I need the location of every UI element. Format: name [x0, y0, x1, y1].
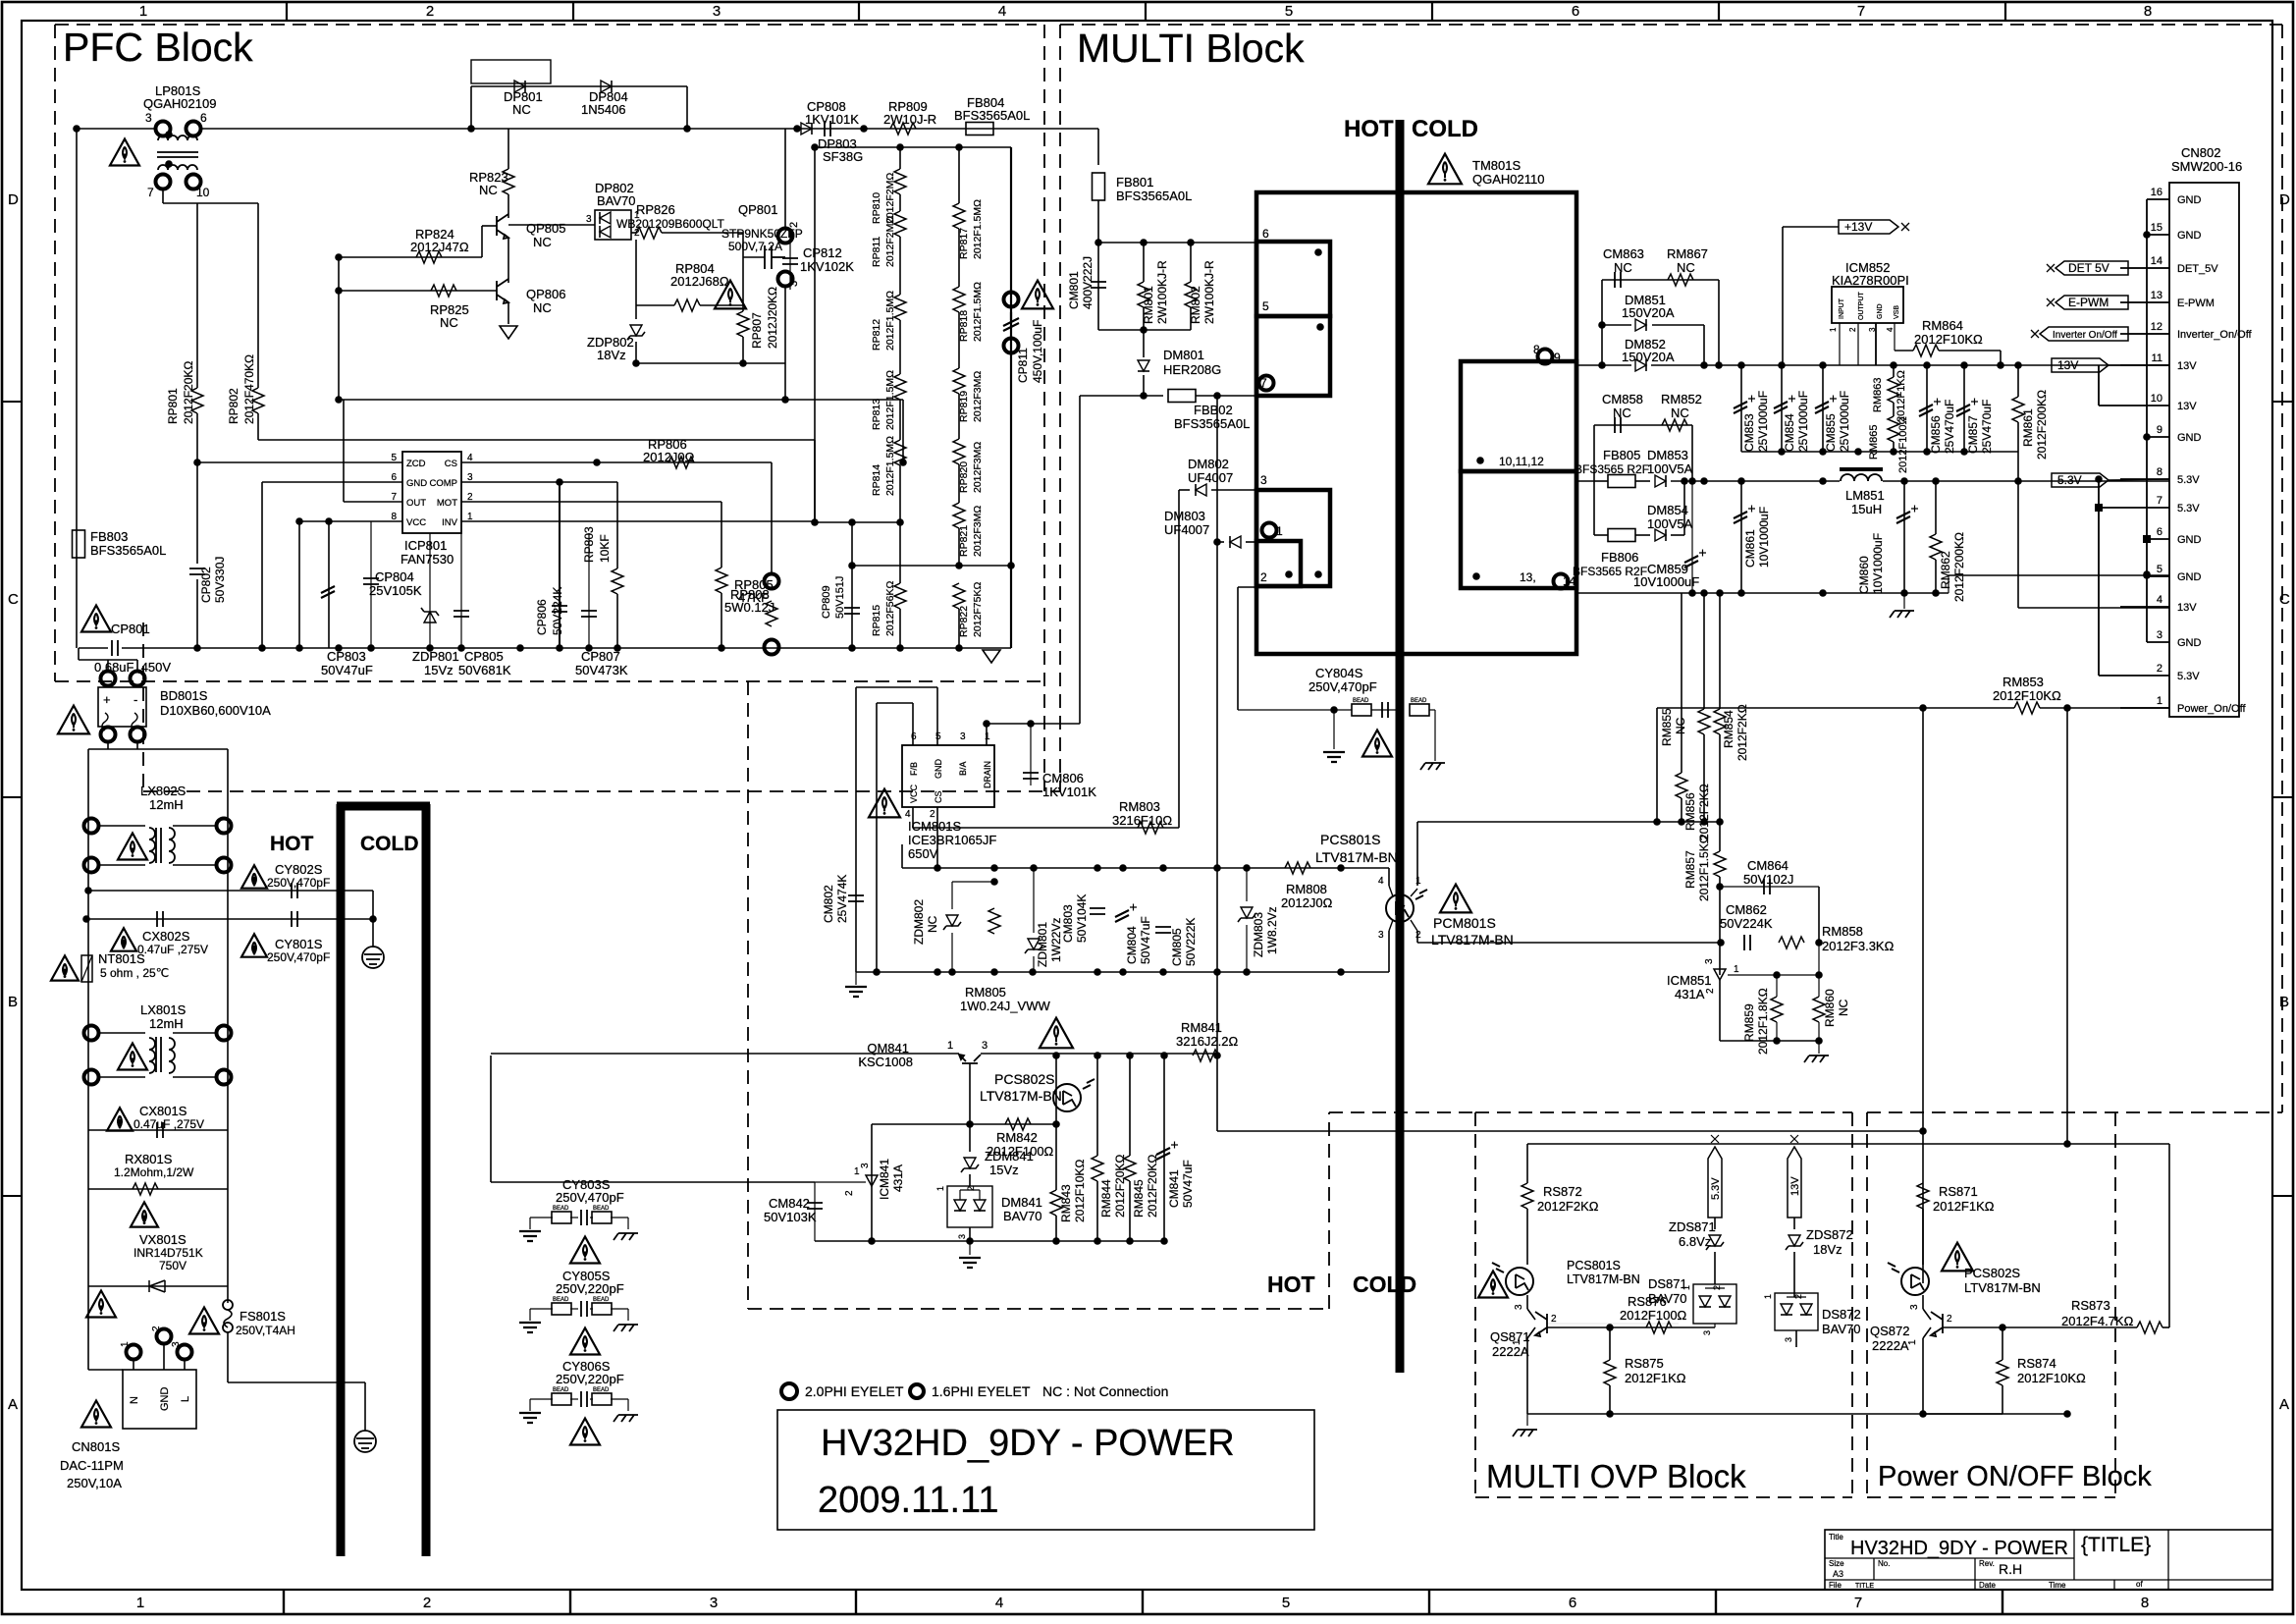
svg-text:1: 1: [1415, 876, 1421, 887]
capacitor CM842: [814, 1182, 816, 1241]
svg-text:2: 2: [1712, 1285, 1722, 1290]
svg-text:ZDM802: ZDM802: [912, 899, 926, 945]
svg-text:UF4007: UF4007: [1188, 470, 1233, 485]
rail y460: [1741, 451, 2018, 453]
svg-text:GND: GND: [2177, 534, 2202, 546]
svg-text:RM865: RM865: [1868, 425, 1880, 460]
svg-text:3: 3: [1909, 1304, 1920, 1310]
svg-text:LX802S: LX802S: [140, 784, 187, 798]
wire x1688 down: [1656, 708, 1658, 822]
wire CY804S row: [1238, 709, 1352, 711]
svg-text:25V1000uF: 25V1000uF: [1796, 391, 1810, 452]
svg-text:9: 9: [1554, 351, 1561, 364]
svg-text:FAN7530: FAN7530: [400, 552, 454, 567]
svg-text:CY804S: CY804S: [1315, 666, 1363, 680]
svg-text:E-PWM: E-PWM: [2068, 296, 2109, 309]
svg-text:{TITLE}: {TITLE}: [2081, 1534, 2151, 1556]
resistor RM853: [2014, 702, 2040, 714]
svg-text:250V,470pF: 250V,470pF: [1308, 679, 1377, 694]
svg-text:5.3V: 5.3V: [2177, 671, 2200, 682]
svg-text:LTV817M-BN: LTV817M-BN: [1567, 1272, 1640, 1286]
svg-text:450V,100uF: 450V,100uF: [1031, 320, 1044, 383]
svg-text:2: 2: [1848, 327, 1857, 332]
svg-text:CN802: CN802: [2181, 145, 2220, 160]
resistor RM844: [1096, 1056, 1098, 1156]
svg-text:FB806: FB806: [1601, 550, 1638, 565]
svg-text:50V47uF: 50V47uF: [1139, 916, 1152, 964]
svg-text:CP812: CP812: [803, 245, 842, 260]
transistor QS872: [1922, 1295, 1924, 1309]
warning triangle BD801S: [58, 706, 89, 734]
svg-text:RM841: RM841: [1181, 1020, 1222, 1035]
svg-text:DM841: DM841: [1001, 1195, 1042, 1210]
svg-text:VX801S: VX801S: [139, 1232, 187, 1247]
svg-text:QGAH02110: QGAH02110: [1472, 172, 1544, 187]
svg-text:0.47uF ,275V: 0.47uF ,275V: [133, 1117, 204, 1131]
wire QM841 rail y1075: [491, 1053, 959, 1055]
svg-text:7: 7: [2157, 495, 2163, 507]
5.3V net flag: [2052, 473, 2109, 487]
svg-text:8: 8: [1533, 343, 1540, 356]
svg-text:100V5A: 100V5A: [1647, 461, 1693, 476]
svg-text:ZDP801: ZDP801: [412, 649, 459, 664]
capacitor CM806: [1030, 724, 1032, 785]
svg-text:QP805: QP805: [526, 221, 565, 236]
svg-text:50V224K: 50V224K: [1720, 916, 1773, 931]
svg-text:RM858: RM858: [1822, 924, 1863, 939]
transformer aux winding 3-1: [1256, 490, 1330, 586]
wire RS873 up right: [2168, 1144, 2170, 1327]
dual diode DP802: [595, 210, 631, 240]
svg-text:50V47uF: 50V47uF: [321, 663, 373, 677]
wire RS872 column: [1526, 1144, 1528, 1183]
svg-text:NC: NC: [533, 300, 552, 315]
wire BD801S outputs: [107, 742, 109, 749]
svg-text:B: B: [8, 994, 18, 1010]
resistor RS872: [1522, 1183, 1533, 1209]
svg-text:2012F10KΩ: 2012F10KΩ: [1993, 688, 2061, 703]
svg-text:RS873: RS873: [2071, 1298, 2110, 1313]
svg-text:BAV70: BAV70: [597, 193, 636, 208]
diode DM803: [1217, 541, 1224, 543]
svg-text:B: B: [2279, 994, 2289, 1010]
svg-text:QS872: QS872: [1870, 1324, 1909, 1338]
warning triangle LX802S: [118, 834, 147, 860]
svg-text:2012F20KΩ: 2012F20KΩ: [1113, 1155, 1127, 1218]
svg-text:18Vz: 18Vz: [597, 348, 626, 362]
svg-text:ICP801: ICP801: [404, 538, 447, 553]
PCM801S pin2 wire rect: [1416, 931, 1418, 943]
earth ground CY803S: [519, 1231, 541, 1241]
svg-text:2W100KJ-R: 2W100KJ-R: [1202, 260, 1216, 324]
resistor RP825: [431, 285, 456, 297]
wire CY802S row: [88, 890, 373, 892]
svg-text:10V1000uF: 10V1000uF: [1871, 533, 1885, 594]
svg-text:50V151J: 50V151J: [834, 576, 846, 619]
svg-text:5.3V: 5.3V: [2057, 473, 2082, 487]
resistor RP803: [616, 482, 618, 568]
warning triangle PCS801S ovp: [1478, 1272, 1508, 1298]
svg-text:2: 2: [930, 809, 935, 820]
capacitor CM861: [1740, 481, 1742, 593]
slash ground GND rail: [1903, 593, 1905, 609]
svg-text:3: 3: [1514, 1304, 1524, 1310]
svg-text:ICE3BR1065JF: ICE3BR1065JF: [908, 833, 996, 847]
capacitor CX801S row: [88, 1129, 228, 1131]
svg-text:RM805: RM805: [965, 985, 1006, 1000]
CN802 pin 13 E-PWM: [2120, 301, 2169, 303]
PFC block dashed boundary: [55, 24, 1037, 26]
svg-text:13V: 13V: [2177, 602, 2197, 614]
svg-text:LM851: LM851: [1845, 488, 1885, 503]
svg-text:7: 7: [1260, 376, 1267, 390]
svg-text:2012F1.5MΩ: 2012F1.5MΩ: [972, 282, 984, 342]
warning triangle LP801S: [110, 139, 139, 166]
svg-text:2012F1.5MΩ: 2012F1.5MΩ: [884, 370, 896, 430]
svg-text:RM864: RM864: [1922, 318, 1963, 333]
svg-text:BFS3565A0L: BFS3565A0L: [954, 108, 1030, 123]
wire QM841 base down: [969, 1063, 971, 1124]
svg-text:GND: GND: [2177, 230, 2202, 242]
warning triangle LX801S: [118, 1044, 147, 1070]
svg-text:RM853: RM853: [2002, 675, 2044, 689]
resistor RP806: [668, 457, 694, 468]
svg-text:E-PWM: E-PWM: [2177, 298, 2215, 309]
svg-text:CM853: CM853: [1742, 413, 1756, 452]
wire x1853 segment: [1818, 887, 1820, 943]
svg-text:2: 2: [1260, 570, 1267, 584]
svg-text:2012F56KΩ: 2012F56KΩ: [884, 581, 896, 636]
svg-text:CP806: CP806: [535, 599, 549, 635]
ground rail PFC: [79, 647, 108, 649]
svg-text:CM805: CM805: [1170, 928, 1184, 966]
CN802 pin 1 Power_On/Off: [2120, 707, 2169, 709]
svg-text:2012J0Ω: 2012J0Ω: [1281, 895, 1333, 910]
svg-text:CP801: CP801: [111, 622, 150, 636]
svg-text:DM802: DM802: [1188, 457, 1229, 471]
svg-text:150V20A: 150V20A: [1622, 305, 1675, 320]
svg-text:15uH: 15uH: [1851, 502, 1882, 516]
resistor RM867: [1668, 274, 1693, 286]
wire QP806 base rail: [339, 290, 497, 292]
wire top rail y131: [77, 128, 156, 130]
main vertical x1240: [1216, 396, 1218, 1131]
junction row y576: [852, 565, 1011, 567]
transformer primary winding 5-7: [1256, 316, 1330, 396]
svg-text:HV32HD_9DY - POWER: HV32HD_9DY - POWER: [821, 1423, 1235, 1464]
svg-text:GND: GND: [934, 759, 943, 780]
title box: [777, 1410, 1314, 1530]
svg-text:NC: NC: [926, 915, 939, 933]
svg-text:CP802: CP802: [199, 567, 213, 603]
warning triangle QM841: [1040, 1018, 1073, 1049]
svg-text:2012F2MΩ: 2012F2MΩ: [884, 216, 896, 267]
capacitor CM801: [1097, 243, 1099, 330]
svg-text:10V1000uF: 10V1000uF: [1633, 574, 1699, 589]
svg-text:COLD: COLD: [1412, 116, 1478, 142]
svg-text:5: 5: [1285, 3, 1293, 20]
svg-text:QP801: QP801: [738, 202, 777, 217]
capacitor CP805: [460, 533, 462, 648]
svg-text:RM844: RM844: [1099, 1179, 1113, 1218]
COLD area bar right: [422, 804, 431, 1556]
wire ICM851 down: [1719, 980, 1721, 1041]
resistor RM864 row: [1895, 350, 1913, 352]
svg-text:A: A: [8, 1396, 18, 1413]
resistor RM856: [1681, 593, 1682, 773]
svg-text:CP803: CP803: [327, 649, 366, 664]
svg-text:13: 13: [2151, 290, 2163, 301]
svg-text:BEAD: BEAD: [553, 1206, 569, 1212]
dual diode DS872: [1775, 1293, 1818, 1330]
node row y336: [1098, 329, 1191, 331]
svg-text:5.3V: 5.3V: [1710, 1177, 1722, 1200]
CN802 13V link: [2098, 365, 2100, 406]
svg-text:GND: GND: [1877, 303, 1884, 319]
+13V flag: [1782, 227, 1784, 365]
svg-text:2: 2: [423, 1595, 431, 1611]
svg-text:2012F4.7KΩ: 2012F4.7KΩ: [2061, 1314, 2134, 1328]
svg-text:8: 8: [2141, 1595, 2149, 1611]
svg-text:2: 2: [844, 1190, 855, 1196]
svg-text:RS871: RS871: [1939, 1184, 1978, 1199]
flag 13V vertical: [1788, 1147, 1801, 1218]
svg-text:BEAD: BEAD: [593, 1206, 610, 1212]
resistor RM842: [1005, 1118, 1031, 1130]
svg-text:RM861: RM861: [2021, 408, 2035, 447]
svg-text:431A: 431A: [1675, 987, 1705, 1001]
svg-text:COLD: COLD: [360, 833, 419, 855]
svg-text:9: 9: [2157, 424, 2163, 436]
svg-text:LTV817M-BN: LTV817M-BN: [1964, 1280, 2041, 1295]
svg-text:2: 2: [426, 3, 434, 20]
svg-text:1KV101K: 1KV101K: [1042, 785, 1096, 799]
svg-text:2012F75KΩ: 2012F75KΩ: [972, 582, 984, 637]
wire DRAIN up: [986, 724, 988, 745]
svg-text:Size: Size: [1829, 1559, 1844, 1568]
svg-text:1: 1: [947, 1040, 953, 1052]
svg-text:1: 1: [1682, 1285, 1691, 1290]
svg-text:3: 3: [960, 731, 966, 742]
svg-text:1: 1: [1763, 1294, 1773, 1299]
svg-text:RM854: RM854: [1722, 710, 1735, 748]
transistor QS871: [1526, 1295, 1528, 1309]
power block bottom rail: [1923, 1413, 2002, 1415]
resistor RP809: [890, 123, 916, 135]
svg-text:BFS3565 R2F: BFS3565 R2F: [1575, 462, 1649, 476]
wire FB801 down: [1097, 200, 1099, 243]
svg-text:6: 6: [2157, 526, 2163, 538]
svg-text:3: 3: [1378, 930, 1384, 941]
svg-text:BEAD: BEAD: [1353, 698, 1369, 704]
wire ZCD row: [197, 461, 402, 463]
fuse bead FB804: [966, 123, 993, 135]
svg-text:25V474K: 25V474K: [835, 875, 849, 923]
svg-text:DM854: DM854: [1647, 503, 1688, 517]
svg-text:OUT: OUT: [406, 498, 426, 509]
resistor RM860: [1818, 943, 1820, 997]
svg-text:6: 6: [1572, 3, 1579, 20]
svg-text:7: 7: [1857, 3, 1865, 20]
svg-text:GND: GND: [159, 1387, 171, 1412]
wire CP801 to BD801S: [78, 648, 80, 660]
wire QS871 emitter down: [1526, 1338, 1528, 1414]
resistor RP812: [894, 295, 906, 320]
svg-text:2012F100Ω: 2012F100Ω: [1897, 416, 1909, 473]
svg-text:PCS802S: PCS802S: [994, 1071, 1054, 1087]
diode DM853: [1655, 475, 1666, 487]
resistor RP808: [771, 462, 773, 573]
diode DP803: [801, 123, 812, 135]
svg-text:12: 12: [2151, 321, 2163, 333]
svg-text:RP815: RP815: [871, 605, 882, 636]
wire DM841 down: [969, 1227, 971, 1241]
svg-text:Inverter On/Off: Inverter On/Off: [2053, 330, 2117, 341]
svg-text:CM804: CM804: [1125, 926, 1139, 964]
svg-text:MULTI OVP Block: MULTI OVP Block: [1486, 1458, 1746, 1494]
svg-text:DM803: DM803: [1164, 509, 1205, 523]
svg-text:CY802S: CY802S: [275, 862, 323, 877]
svg-text:RP802: RP802: [227, 388, 240, 424]
CN802 gnd bus: [2146, 199, 2148, 642]
svg-text:NC: NC: [1671, 406, 1689, 420]
left AC rail: [87, 749, 89, 1370]
svg-text:3: 3: [713, 3, 721, 20]
svg-text:LX801S: LX801S: [140, 1002, 187, 1017]
wire FB loop: [912, 703, 914, 745]
svg-text:6: 6: [911, 731, 917, 742]
CN802 pin 4 13V: [2120, 606, 2169, 608]
svg-text:50V330J: 50V330J: [213, 557, 227, 603]
CN802 pin 10 13V: [2099, 405, 2169, 406]
svg-text:RM867: RM867: [1667, 246, 1708, 261]
svg-text:2222A: 2222A: [1492, 1344, 1529, 1359]
svg-text:ZDM801: ZDM801: [1036, 922, 1049, 967]
capacitor CP808: [825, 121, 830, 136]
svg-text:HV32HD_9DY - POWER: HV32HD_9DY - POWER: [1850, 1538, 2068, 1559]
svg-text:OUTPUT: OUTPUT: [1858, 292, 1865, 321]
svg-text:Power_On/Off: Power_On/Off: [2177, 703, 2246, 715]
zener ZDM801: [1033, 868, 1035, 933]
svg-text:3: 3: [145, 111, 152, 125]
svg-text:QS871: QS871: [1490, 1329, 1529, 1344]
resistor RS873: [2137, 1322, 2163, 1333]
svg-text:QGAH02109: QGAH02109: [143, 96, 216, 111]
svg-text:SF38G: SF38G: [823, 149, 863, 164]
resistor RM803: [1138, 822, 1163, 834]
wire GND pin loop: [936, 687, 938, 745]
capacitor CM804: [1115, 910, 1129, 922]
svg-text:1: 1: [1829, 327, 1838, 332]
svg-text:2012F100Ω: 2012F100Ω: [1620, 1308, 1687, 1323]
svg-text:RM801: RM801: [1142, 286, 1155, 324]
svg-text:2: 2: [1947, 1314, 1952, 1325]
warning triangle CP811: [1022, 281, 1053, 309]
svg-text:8: 8: [2144, 3, 2152, 20]
zener ZDM841: [969, 1124, 971, 1152]
svg-text:5: 5: [1262, 299, 1269, 313]
svg-text:1N5406: 1N5406: [581, 102, 626, 117]
resistor RM841: [1193, 1050, 1218, 1061]
svg-text:UF4007: UF4007: [1164, 522, 1209, 537]
capacitor CP812: [789, 233, 791, 290]
transformer aux winding 1-2: [1256, 541, 1301, 586]
svg-text:3216J2.2Ω: 3216J2.2Ω: [1176, 1034, 1238, 1049]
ground ICM801S: [855, 972, 857, 985]
svg-text:1W8.2Vz: 1W8.2Vz: [1265, 906, 1279, 954]
bead CY804S right: [1371, 709, 1401, 711]
capacitor CM862 + RM858 row: [1744, 935, 1750, 950]
svg-text:NC: NC: [440, 315, 458, 330]
svg-text:10,11,12: 10,11,12: [1499, 455, 1544, 468]
svg-text:1: 1: [985, 731, 990, 742]
svg-text:VCC: VCC: [909, 784, 919, 803]
svg-text:GND: GND: [2177, 637, 2202, 649]
svg-text:1W0.24J_VWW: 1W0.24J_VWW: [960, 999, 1050, 1013]
optocoupler PCS802S: [1055, 1056, 1057, 1124]
PFC/MULTI dashed separator: [1043, 25, 1045, 791]
zener ZDM803: [1246, 868, 1248, 901]
svg-text:TM801S: TM801S: [1472, 158, 1521, 173]
OVP top rail: [1527, 1143, 2169, 1145]
svg-text:7: 7: [147, 186, 154, 199]
svg-text:400V222J: 400V222J: [1081, 256, 1095, 309]
resistor RM845: [1129, 1056, 1131, 1156]
svg-text:2W10J-R: 2W10J-R: [883, 112, 936, 127]
svg-text:BEAD: BEAD: [553, 1387, 569, 1393]
vertical x1030 CP811: [1010, 147, 1012, 648]
PCM801S pin1 wire rect: [1417, 821, 1720, 823]
svg-text:F/B: F/B: [909, 762, 919, 776]
svg-text:CP809: CP809: [821, 585, 832, 619]
Power ON/OFF block dashed box: [1867, 1111, 2282, 1113]
OVP bottom rail: [1527, 1413, 2067, 1415]
svg-text:5: 5: [2157, 564, 2163, 575]
svg-text:2009.11.11: 2009.11.11: [818, 1480, 999, 1521]
resistor RP818: [953, 287, 965, 312]
13V rail y372: [1576, 364, 1631, 366]
svg-text:1: 1: [139, 3, 147, 20]
svg-text:6.8Vz: 6.8Vz: [1679, 1234, 1711, 1249]
svg-text:Inverter_On/Off: Inverter_On/Off: [2177, 329, 2253, 341]
svg-text:HER208G: HER208G: [1163, 362, 1221, 377]
svg-text:CY801S: CY801S: [275, 937, 323, 951]
warning triangle ICM801S: [869, 789, 900, 818]
13V net flag: [2052, 358, 2109, 372]
svg-text:25V470uF: 25V470uF: [1980, 400, 1994, 454]
CN802 pin 16 GND: [2147, 198, 2169, 200]
resistor RP824: [416, 251, 442, 263]
CN802 pin 7 5.3V: [2099, 507, 2169, 509]
svg-text:CS: CS: [934, 790, 943, 803]
vertical x1959 power net: [1922, 708, 1924, 1131]
svg-text:GND: GND: [2177, 432, 2202, 444]
svg-text:RM855: RM855: [1660, 708, 1674, 746]
svg-text:13,: 13,: [1520, 570, 1536, 584]
svg-text:3: 3: [860, 1163, 871, 1168]
transformer primary winding 6-5: [1256, 242, 1330, 316]
svg-text:2012J20KΩ: 2012J20KΩ: [766, 287, 779, 349]
inductor LM851: [1841, 474, 1882, 481]
svg-text:750V: 750V: [159, 1259, 187, 1272]
svg-text:ZDM803: ZDM803: [1252, 912, 1265, 957]
svg-text:2012F20KΩ: 2012F20KΩ: [182, 361, 195, 424]
wire QS871 collector row: [1547, 1323, 1679, 1325]
svg-text:BEAD: BEAD: [593, 1297, 610, 1303]
svg-text:DAC-11PM: DAC-11PM: [60, 1458, 124, 1473]
svg-text:ZCD: ZCD: [406, 459, 426, 469]
svg-text:NC: NC: [512, 102, 531, 117]
